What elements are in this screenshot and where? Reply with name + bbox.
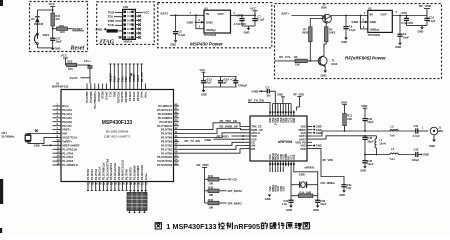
capacitor C17 30pF: [50, 29, 62, 48]
svg-text:GND: GND: [187, 20, 195, 24]
JTAG block dashed border: [97, 2, 155, 45]
svg-text:P1.0/TACLK: P1.0/TACLK: [62, 147, 77, 151]
wire XC1 to crystal: [290, 166, 292, 184]
svg-text:1: 1: [166, 222, 170, 231]
electrolytic capacitor CP1 4.7uF/16V: [234, 13, 246, 26]
decoupling capacitor C20: [218, 77, 229, 88]
ground (power out caps): [242, 26, 255, 34]
svg-text:P4.1/TB1: P4.1/TB1: [161, 147, 173, 151]
inductor L1 12nH: [365, 136, 390, 156]
svg-text:GND: GND: [252, 89, 260, 93]
svg-text:GND: GND: [341, 40, 347, 44]
nRF905 left pin labels: [245, 125, 263, 151]
svg-text:ON/Byp: ON/Byp: [370, 28, 380, 32]
wire net DR: [179, 149, 245, 154]
svg-text:1K0: 1K0: [60, 30, 65, 34]
svg-text:VDD: VDD: [300, 147, 306, 151]
capacitor C41 4.7pF: [413, 124, 428, 138]
ground under C40: [360, 166, 367, 172]
RF transceiver U2 nRF905 body: [250, 116, 307, 161]
svg-text:GND: GND: [206, 20, 214, 24]
svg-text:+CP2: +CP2: [400, 11, 407, 15]
VCC tick (decoupling row): [200, 68, 206, 76]
svg-text:IN: IN: [370, 12, 373, 16]
svg-text:R22: R22: [68, 60, 73, 64]
diode D1 1N4148: [31, 10, 43, 39]
capacitor C32 1.5pF: [282, 196, 294, 206]
svg-text:8550: 8550: [321, 6, 327, 10]
wire net RF_TRX_CE: [179, 119, 245, 130]
svg-text:P5.5/TB5: P5.5/TB5: [85, 91, 89, 103]
svg-text:12nH: 12nH: [379, 141, 386, 145]
svg-text:RESET: RESET: [107, 29, 116, 33]
svg-text:0.1µF: 0.1µF: [178, 33, 185, 37]
nRF905 inside bottom pin names: [268, 153, 296, 160]
wire ANT1 rail: [312, 130, 416, 136]
svg-text:GND: GND: [395, 45, 401, 49]
svg-text:15pF: 15pF: [320, 202, 327, 206]
svg-text:TMS: TMS: [120, 76, 124, 82]
svg-text:P2.4/CA1/TA2: P2.4/CA1/TA2: [113, 162, 117, 180]
MCU bottom pins 17-32: [86, 158, 148, 190]
enable loop wire to U5 pin 3: [195, 14, 204, 28]
GND tick near XC2: [299, 172, 305, 176]
svg-text:+CP1: +CP1: [235, 13, 242, 17]
wire net RF_PWR_UP: [179, 125, 245, 134]
capacitor C21 10uF: [84, 59, 93, 84]
svg-text:RF_VDD: RF_VDD: [419, 4, 432, 8]
nRF905 inside top pin names: [268, 117, 296, 125]
GND arrow into JTAG: [96, 27, 107, 31]
svg-text:GND: GND: [370, 20, 378, 24]
svg-text:RF_VDD: RF_VDD: [217, 134, 230, 138]
net label RF_VDD to nRF905 VDD: [217, 134, 246, 138]
svg-text:10n: 10n: [266, 93, 271, 97]
svg-text:C3: C3: [266, 85, 270, 89]
electrolytic capacitor CP2 4.7uF/16V: [400, 11, 413, 25]
MCU right pins 33-48: [157, 102, 179, 167]
svg-text:nRF905: nRF905: [234, 222, 260, 231]
net label RF_VDD (pull-ups): [197, 163, 210, 203]
svg-text:VREF-/VeREF-: VREF-/VeREF-: [62, 143, 80, 147]
svg-text:P6.1/A1: P6.1/A1: [132, 91, 136, 101]
svg-text:10: 10: [129, 27, 132, 31]
svg-text:VDD: VDD: [292, 118, 296, 124]
svg-text:10K: 10K: [209, 193, 214, 197]
svg-text:P6.6/A6: P6.6/A6: [62, 120, 72, 124]
svg-text:P2.3/CA0/TA1: P2.3/CA0/TA1: [109, 162, 113, 180]
svg-text:CR1 16MHz: CR1 16MHz: [320, 181, 335, 185]
svg-text:DVss: DVss: [144, 173, 148, 180]
svg-text:P1.6/TA1: P1.6/TA1: [90, 169, 94, 180]
ground under C9: [395, 43, 402, 49]
resistor R2 10K2: [324, 27, 336, 48]
ground under C32: [286, 206, 293, 212]
svg-text:10K: 10K: [209, 182, 214, 186]
svg-text:AVcc: AVcc: [144, 91, 148, 98]
transistor T2 8550 (PNP switch): [321, 2, 368, 23]
svg-text:33pF: 33pF: [367, 139, 374, 143]
resistor R33 to SPI_MISO: [205, 198, 243, 209]
wire net AM: [179, 146, 245, 150]
svg-text:P3.2/SOMI0: P3.2/SOMI0: [136, 165, 140, 180]
x-mark near XIN: [35, 129, 38, 132]
svg-text:GND: GND: [341, 100, 347, 104]
BAT+ input label: [282, 12, 322, 16]
svg-text:P2.1/TAINCLK: P2.1/TAINCLK: [101, 162, 105, 180]
svg-text:P3.6/UTXD1: P3.6/UTXD1: [157, 159, 172, 163]
nRF905 right pin labels: [295, 125, 312, 151]
svg-text:P1.1/TA0: P1.1/TA0: [62, 151, 73, 155]
inductor L3 7nH: [390, 147, 416, 161]
svg-text:SW1: SW1: [43, 33, 50, 37]
svg-text:RF-CD: RF-CD: [228, 178, 238, 182]
svg-text:P4.3/TB3: P4.3/TB3: [161, 140, 173, 144]
capacitor C38 33pF: [362, 136, 373, 156]
svg-text:P6.4/A4: P6.4/A4: [62, 112, 72, 116]
svg-text:P6.7/A7: P6.7/A7: [62, 124, 72, 128]
svg-text:4700pF: 4700pF: [238, 84, 247, 88]
svg-text:TMS: TMS: [112, 91, 116, 97]
svg-text:DVss2: DVss2: [105, 91, 109, 100]
VCC power symbol (AVCC filter): [61, 54, 68, 65]
resistor R11 22K (antenna bias): [341, 100, 353, 131]
scan artifact marks left edge: [0, 0, 3, 233]
svg-text:C21 +: C21 +: [84, 59, 92, 63]
svg-text:XC2: XC2: [292, 154, 296, 160]
nRF905 bottom pins with pads: [269, 161, 295, 166]
svg-text:RF(nRF905) Power: RF(nRF905) Power: [345, 56, 386, 61]
svg-text:P5.2/SOMI1: P5.2/SOMI1: [158, 112, 173, 116]
svg-text:OUT: OUT: [381, 12, 388, 16]
unconnected JTAG right pins x-marks: [135, 15, 141, 39]
svg-text:1K0: 1K0: [68, 67, 73, 71]
svg-text:0.1µF: 0.1µF: [258, 18, 265, 22]
svg-text:XOUT: XOUT: [136, 74, 140, 82]
RF_VDD power symbol: [419, 4, 432, 16]
Reset block dashed border: [30, 2, 88, 52]
AVCC net tick: [70, 76, 91, 80]
svg-text:MSP430 Power: MSP430 Power: [190, 41, 223, 46]
resistor R21: [57, 24, 73, 34]
svg-text:MSP430F133: MSP430F133: [52, 85, 69, 89]
capacitor C6 0.1uF: [343, 15, 356, 38]
net label GND to nRF905 VSS: [205, 138, 246, 142]
capacitor C7 0.1uF: [252, 14, 264, 26]
svg-text:MSP430F133: MSP430F133: [173, 222, 217, 231]
wire ANT2 rail: [312, 135, 377, 139]
resistor R32 to SPI_MOSI: [205, 186, 242, 197]
svg-text:VCC: VCC: [49, 2, 56, 6]
svg-text:100pF: 100pF: [412, 158, 420, 162]
VCC power symbol (MSP430 power out): [250, 6, 257, 15]
svg-text:VCC: VCC: [143, 11, 150, 15]
svg-text:P6.2/A2: P6.2/A2: [136, 91, 140, 101]
svg-text:OUT: OUT: [218, 12, 225, 16]
svg-text:TDI/TCLK: TDI/TCLK: [116, 91, 120, 103]
enable loop wire to U3 pin 3: [360, 15, 368, 29]
svg-text:P2.7/TA0: P2.7/TA0: [125, 169, 129, 180]
U3 output wire pin 5: [392, 10, 427, 16]
svg-text:GND: GND: [418, 30, 424, 34]
svg-text:P5.3/UCLK1: P5.3/UCLK1: [157, 108, 172, 112]
svg-text:P3.7/URXD1: P3.7/URXD1: [157, 155, 173, 159]
svg-text:VCC: VCC: [250, 6, 257, 10]
ground under C36: [313, 206, 320, 212]
capacitor C36 15pF: [315, 196, 327, 206]
svg-text:GND: GND: [352, 20, 360, 24]
svg-text:C10: C10: [429, 15, 434, 19]
svg-text:C41: C41: [414, 124, 419, 128]
GND net label to VREF pin: [34, 144, 53, 148]
svg-text:R33: R33: [208, 198, 213, 202]
svg-text:ON/Byp: ON/Byp: [206, 28, 216, 32]
svg-text:47k: 47k: [55, 17, 60, 21]
U5 output wire pin 5: [231, 11, 256, 16]
svg-text:RF_TX_EN: RF_TX_EN: [185, 139, 200, 143]
svg-text:GND: GND: [205, 138, 213, 142]
svg-text:P4.7/TBCLK: P4.7/TBCLK: [157, 124, 172, 128]
svg-text:P6.5/A5: P6.5/A5: [62, 116, 72, 120]
svg-text:0.1µF: 0.1µF: [429, 19, 436, 23]
svg-text:BAT1: BAT1: [161, 11, 169, 15]
svg-text:1M0: 1M0: [306, 191, 312, 195]
net label RF_CTL and resistor R3 51K: [275, 55, 320, 66]
MCU U1 MSP430F133 body: [52, 82, 174, 182]
node reset junction: [52, 28, 57, 30]
decoupling capacitor C24 4700pF: [230, 77, 247, 88]
svg-text:GND: GND: [286, 208, 292, 212]
ground under T1: [321, 71, 328, 78]
svg-text:GND: GND: [313, 208, 319, 212]
svg-text:22K: 22K: [347, 117, 352, 121]
svg-text:10nF: 10nF: [403, 35, 410, 39]
inductor L2 7nH: [390, 125, 399, 138]
svg-text:TDO/TDI: TDO/TDI: [120, 91, 124, 102]
transistor T1 9013 (NPN): [318, 44, 338, 71]
MCU left pins 1-16: [53, 102, 81, 167]
capacitor C42 100pF: [412, 147, 429, 161]
crystal CR1 32.768kHz: [2, 131, 53, 143]
svg-text:P5.7/TBOUTH: P5.7/TBOUTH: [93, 91, 97, 108]
svg-text:SPI_MOSI: SPI_MOSI: [228, 189, 242, 193]
ground under SPI label block: [265, 195, 272, 201]
svg-text:47µF: 47µF: [205, 81, 211, 85]
svg-text:10pF: 10pF: [367, 120, 374, 124]
svg-text:D1: D1: [31, 17, 35, 21]
svg-text:GND: GND: [316, 131, 322, 135]
svg-text:P2.5/ROSC: P2.5/ROSC: [117, 166, 121, 180]
svg-text:BAT+: BAT+: [282, 12, 290, 16]
GND power tick above nRF905: [277, 93, 285, 104]
svg-text:GND: GND: [34, 144, 40, 148]
svg-text:SPI_MISO: SPI_MISO: [228, 201, 243, 205]
ground under C5: [170, 40, 177, 46]
svg-text:P1.2/TA1: P1.2/TA1: [62, 155, 73, 159]
svg-text:L2: L2: [391, 125, 395, 129]
MCU top pins 49-64: [85, 84, 148, 109]
svg-text:R21: R21: [60, 24, 65, 28]
svg-text:51K: 51K: [295, 62, 300, 66]
svg-text:7nH: 7nH: [390, 134, 395, 138]
svg-text:GND: GND: [277, 93, 283, 97]
svg-text:RF_VDD: RF_VDD: [323, 158, 334, 162]
svg-text:GND: GND: [244, 30, 250, 34]
svg-text:P3.5/URXD0: P3.5/URXD0: [157, 163, 173, 167]
svg-text:IN: IN: [206, 12, 209, 16]
svg-text:VCC: VCC: [200, 68, 206, 72]
switch SW1: [35, 33, 50, 48]
svg-text:+C24: +C24: [230, 77, 237, 81]
svg-text:GND: GND: [265, 197, 271, 201]
JTAG signal TDO: [108, 10, 123, 14]
ground (Reset block): [37, 47, 60, 51]
svg-text:TCK: TCK: [109, 91, 113, 97]
svg-text:P4.0/TB0: P4.0/TB0: [161, 151, 173, 155]
svg-text:P1.3/TA2: P1.3/TA2: [62, 159, 73, 163]
svg-text:1N4148: 1N4148: [34, 22, 44, 26]
svg-text:P2.6/ADC12CLK: P2.6/ADC12CLK: [121, 160, 125, 180]
svg-text:XT2IN: XT2IN: [132, 74, 136, 82]
capacitor C40 10pF: [362, 155, 373, 167]
svg-text:TDO: TDO: [113, 76, 117, 82]
net label RESET (Reset block): [72, 27, 84, 31]
svg-text:R3: R3: [294, 55, 298, 59]
svg-text:P1.4/SMCLK: P1.4/SMCLK: [62, 163, 78, 167]
ground under C6: [341, 38, 348, 44]
ground (decoupling row): [201, 87, 207, 97]
nRF905 top pins with pads: [269, 111, 295, 117]
resistor R22: [67, 60, 90, 71]
svg-text:10K: 10K: [209, 205, 214, 209]
svg-text:GND: GND: [201, 93, 207, 97]
JTAG signal TDI: [108, 15, 123, 19]
svg-text:12: 12: [129, 31, 132, 35]
svg-text:nRF905: nRF905: [305, 165, 315, 169]
resistor R31 to RF-CD: [205, 174, 238, 185]
svg-text:GND: GND: [128, 76, 132, 82]
svg-text:XT2OUT: XT2OUT: [97, 91, 101, 102]
svg-text:GND: GND: [429, 144, 435, 148]
GND net labels on nRF905 right pins: [312, 125, 322, 148]
programming header J2 below MCU: [127, 191, 147, 213]
base wire T2: [310, 19, 328, 27]
ground (RF power out caps): [407, 25, 428, 33]
svg-text:VREF+: VREF+: [62, 128, 71, 132]
GND net label to U3 pin 2: [352, 18, 368, 24]
svg-text:P6.3/A3: P6.3/A3: [62, 108, 72, 112]
net label RF_TX_EN (nRF905 top): [248, 98, 270, 110]
svg-text:RF_PWR_UP: RF_PWR_UP: [220, 125, 239, 129]
svg-text:SMA: SMA: [437, 129, 443, 133]
svg-text:RF_CTL: RF_CTL: [279, 55, 291, 59]
RF_VDD power tick above nRF905: [294, 92, 305, 110]
svg-text:R32: R32: [208, 186, 213, 190]
svg-text:P2.0/ACLK: P2.0/ACLK: [98, 166, 102, 180]
svg-text:AVss: AVss: [140, 91, 144, 98]
capacitor C9 10nF: [397, 16, 409, 43]
svg-text:RF_CTL: RF_CTL: [140, 71, 144, 82]
svg-text:TCK: TCK: [124, 76, 128, 82]
MSP430 Power dashed border: [158, 3, 272, 48]
svg-text:GND: GND: [423, 153, 429, 157]
BAT1 input label: [161, 11, 205, 16]
svg-text:DR: DR: [251, 147, 255, 151]
svg-text:5K62: 5K62: [302, 31, 309, 35]
svg-text:Reset: Reset: [70, 44, 85, 51]
svg-text:1.5p: 1.5p: [282, 202, 288, 206]
caption figure title: [155, 222, 309, 231]
svg-text:RF_TRX_CE: RF_TRX_CE: [220, 119, 238, 123]
svg-text:RST/NMI: RST/NMI: [124, 91, 128, 102]
antenna connector J1 SMA: [430, 125, 443, 139]
resistor R7 5K62: [302, 27, 312, 62]
svg-text:U3: U3: [368, 7, 372, 11]
MCU top net wires RESET/TDO/TDI/TMS/TCK/GND/RF_CTL: [109, 64, 144, 84]
svg-text:4.7pF: 4.7pF: [413, 134, 420, 138]
svg-text:TPS76033: TPS76033: [368, 33, 381, 37]
svg-text:GND: GND: [299, 172, 305, 176]
svg-text:R14: R14: [300, 191, 305, 195]
voltage regulator U3 TPS76033: [364, 7, 393, 37]
wire VCC to diode/resistor junction: [37, 9, 53, 11]
x-mark JTAG pin 13: [119, 36, 123, 39]
resistor R14 1M: [291, 185, 318, 198]
svg-text:VeREF+: VeREF+: [62, 139, 72, 143]
voltage regulator U5 TPS76333: [204, 6, 231, 37]
capacitor C31 3.3pF: [321, 160, 352, 190]
svg-text:GND: GND: [96, 27, 104, 31]
capacitor C10 0.1uF: [424, 15, 435, 25]
svg-text:RF_VDD: RF_VDD: [294, 92, 305, 96]
crystal CR2 16MHz: [291, 181, 335, 188]
svg-text:P5.0/STE1: P5.0/STE1: [159, 120, 172, 124]
svg-text:JTAG: JTAG: [98, 39, 115, 46]
svg-text:CN1: CN1: [123, 5, 129, 9]
svg-text:VSS: VSS: [281, 186, 285, 192]
svg-text:GND: GND: [321, 74, 327, 78]
svg-text:8K+256B 256RAM: 8K+256B 256RAM: [106, 130, 129, 134]
svg-text:P4.6/TB6: P4.6/TB6: [161, 128, 173, 132]
svg-text:32.768kHz: 32.768kHz: [2, 134, 15, 138]
svg-text:L3: L3: [391, 147, 395, 151]
svg-text:P4.5/TB5: P4.5/TB5: [161, 132, 173, 136]
svg-text:GND: GND: [362, 104, 368, 108]
svg-text:P3.3/UCLK0: P3.3/UCLK0: [140, 165, 144, 180]
ground under C31: [339, 190, 346, 196]
svg-text:GND: GND: [339, 193, 345, 197]
svg-text:GND: GND: [170, 42, 176, 46]
svg-text:GND: GND: [360, 169, 366, 173]
svg-text:P6.0/A0: P6.0/A0: [128, 91, 132, 101]
svg-text:0.1µF: 0.1µF: [349, 28, 356, 32]
svg-text:P5.1/SIMO1: P5.1/SIMO1: [158, 116, 173, 120]
RF(nRF905) Power dashed border: [275, 4, 442, 79]
svg-text:XT2IN: XT2IN: [101, 91, 105, 99]
svg-text:nRF905: nRF905: [278, 139, 293, 144]
svg-text:XOUT/TCLK: XOUT/TCLK: [62, 136, 77, 140]
svg-text:P5.6/TB6: P5.6/TB6: [89, 91, 93, 103]
svg-text:TCK: TCK: [108, 23, 115, 27]
RF_VDD net label on nRF905 VDD pin: [312, 149, 333, 163]
svg-text:7nH: 7nH: [390, 157, 395, 161]
svg-text:U5: U5: [204, 6, 208, 10]
JTAG signal TMS: [108, 19, 123, 23]
JTAG header CN1 14-pin: [123, 5, 136, 39]
svg-text:1µF: 1µF: [222, 81, 227, 85]
svg-text:GND: GND: [316, 144, 322, 148]
svg-text:P1.5/TA0: P1.5/TA0: [86, 169, 90, 180]
